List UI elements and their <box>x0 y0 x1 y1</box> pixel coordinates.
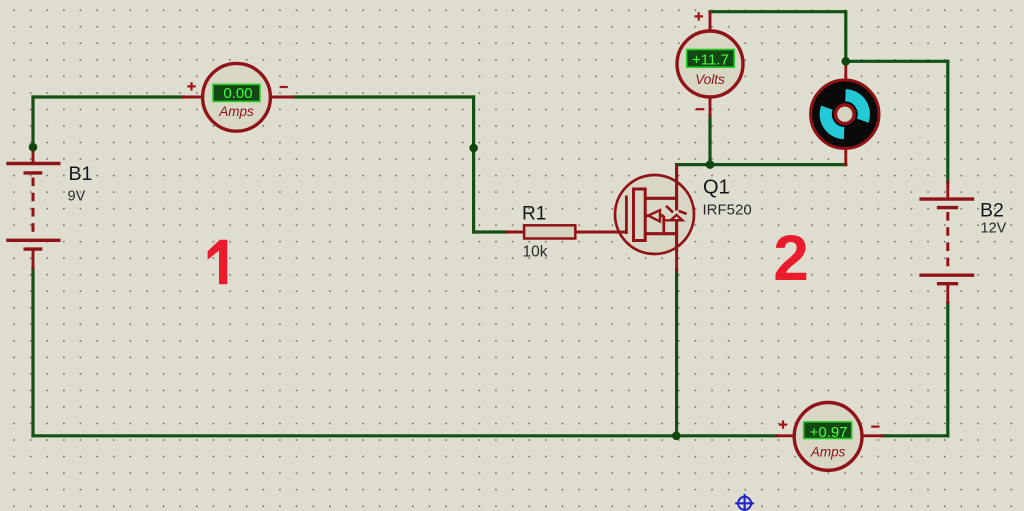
A2 meter body <box>794 403 862 471</box>
svg-text:Amps: Amps <box>810 445 846 460</box>
A1 meter body <box>203 63 271 131</box>
origin marker <box>735 494 754 511</box>
drain stub <box>645 197 676 200</box>
battery B2 <box>919 199 974 284</box>
minus mark A1 <box>280 86 288 88</box>
ammeter A1 <box>203 63 271 131</box>
pin motor top <box>844 62 847 81</box>
pin voltmeter top <box>709 13 712 32</box>
pin ammeter A2 right <box>862 434 882 437</box>
body diode triangle <box>671 215 683 220</box>
A1 LCD display <box>213 84 260 101</box>
body stub + arrow tail <box>645 216 664 234</box>
wire top-left horizontal from B1 to ammeter <box>33 95 184 98</box>
junction dot motor top node <box>842 57 851 66</box>
B1 negative plate (cell 1) <box>24 171 43 174</box>
B1 positive plate (cell 2) <box>6 239 60 242</box>
wire ammeter right to corner <box>293 95 474 98</box>
pin B1 bottom <box>32 250 35 268</box>
resistor R1 <box>524 225 575 238</box>
wire drain horizontal to motor <box>677 163 846 166</box>
pin drain vertical <box>675 166 678 211</box>
channel bar <box>634 189 646 241</box>
svg-text:0.00: 0.00 <box>223 85 252 102</box>
A2 LCD display <box>804 422 852 439</box>
wire top right horizontal <box>846 60 948 63</box>
wire vertical jog down <box>472 97 475 232</box>
arrow triangle <box>648 210 660 221</box>
pin source vertical <box>675 220 678 271</box>
wire source vertical <box>675 270 678 436</box>
minus mark V1 <box>696 108 704 110</box>
annotation number 1 <box>208 240 228 285</box>
wire B1 bottom vertical <box>31 268 34 436</box>
junction dot on jog wire <box>469 144 478 153</box>
pin ammeter A1 right <box>269 96 293 99</box>
gate lead overlay <box>612 231 628 234</box>
V1 LCD display <box>687 50 735 68</box>
wire motor top corner <box>710 12 846 62</box>
body diode anode line <box>664 219 683 221</box>
svg-text:Volts: Volts <box>695 72 725 87</box>
pin resistor right / gate <box>575 231 627 234</box>
B2 positive plate (cell 1) <box>919 197 974 200</box>
pin voltmeter bottom <box>709 97 712 116</box>
pin resistor left <box>507 231 525 234</box>
B1 dashed link <box>32 178 35 239</box>
voltmeter V1 <box>677 31 743 97</box>
V1 meter body <box>677 31 743 97</box>
svg-text:IRF520: IRF520 <box>703 202 752 219</box>
B1 positive plate (cell 1) <box>6 162 60 165</box>
wire right vertical upper <box>946 61 949 182</box>
mosfet internal D-S vertical inside circle <box>675 166 678 252</box>
pin B2 bottom <box>946 284 949 303</box>
svg-text:+11.7: +11.7 <box>692 51 729 68</box>
wire bottom horizontal left <box>33 434 777 437</box>
mosfet Q1 <box>612 166 694 254</box>
motor cyan arc top-right <box>846 95 864 121</box>
plus mark V1 <box>695 12 704 20</box>
junction dot source/bottom rail node <box>672 432 681 441</box>
minus mark A2 <box>871 426 879 428</box>
motor hub <box>836 105 855 124</box>
svg-text:B2: B2 <box>980 200 1004 222</box>
wire B1 top vertical <box>31 97 34 150</box>
svg-text:+0.97: +0.97 <box>810 424 848 441</box>
motor cyan arc bottom-left <box>826 108 844 134</box>
pin B1 top <box>32 149 35 162</box>
wire voltmeter bottom vertical <box>708 116 711 165</box>
pin ammeter A2 left <box>777 434 795 437</box>
motor M1 <box>811 80 879 148</box>
pin B2 top <box>946 182 949 198</box>
svg-text:B1: B1 <box>69 163 93 185</box>
svg-text:R1: R1 <box>522 204 546 225</box>
junction dot voltmeter/drain node <box>706 160 715 169</box>
plus mark A2 <box>779 420 787 428</box>
wire right vertical lower <box>946 303 949 436</box>
motor body <box>811 80 879 148</box>
B2 dashed link <box>946 212 949 273</box>
svg-text:2: 2 <box>773 222 809 294</box>
svg-text:10k: 10k <box>523 244 548 261</box>
ammeter A2 <box>794 403 862 471</box>
pin motor bottom <box>844 148 847 165</box>
B2 positive plate (cell 2) <box>919 274 974 277</box>
B2 negative plate (cell 2) <box>937 282 958 285</box>
body diode bent cathode bar <box>666 206 687 214</box>
battery B1 <box>6 164 60 250</box>
wire bottom horizontal right <box>882 434 948 437</box>
svg-text:Amps: Amps <box>218 104 254 119</box>
B2 negative plate (cell 1) <box>937 206 958 209</box>
svg-text:9V: 9V <box>68 189 86 205</box>
plus mark A1 <box>187 82 195 90</box>
source stub <box>645 232 676 235</box>
Q1 envelope circle <box>615 175 694 254</box>
junction dot at B1 top <box>29 143 38 152</box>
pin ammeter A1 left <box>184 96 205 99</box>
wire horizontal to resistor <box>474 230 507 233</box>
gate line <box>625 196 628 235</box>
B1 negative plate (cell 2) <box>24 247 43 250</box>
svg-text:12V: 12V <box>981 221 1007 237</box>
svg-text:Q1: Q1 <box>703 177 730 199</box>
